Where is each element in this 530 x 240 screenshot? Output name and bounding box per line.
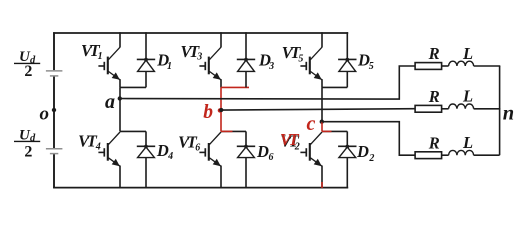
label D6 xyxy=(256,142,274,163)
inductor L (phase b branch) xyxy=(449,104,474,109)
label Ud/2 upper xyxy=(14,49,40,80)
wire: DC bus negative rail xyxy=(53,187,348,189)
wire: phase c output line xyxy=(322,122,415,156)
diode D3 xyxy=(237,32,255,87)
wire: leg A lower phase drop xyxy=(119,99,121,132)
wire: VT1 collector riser xyxy=(119,32,121,47)
wire xyxy=(474,65,501,67)
svg-text:2: 2 xyxy=(24,63,32,80)
label VT4 xyxy=(78,131,101,152)
wire: VT1 emitter lead xyxy=(119,79,121,87)
label D3 xyxy=(258,50,274,71)
wire: VT6 emitter to negative rail xyxy=(220,166,222,189)
svg-text:2: 2 xyxy=(294,142,300,153)
resistor R (phase a branch) xyxy=(415,63,442,70)
wire: VT4 collector to D4 jog xyxy=(120,130,146,132)
diode D2 xyxy=(338,131,356,188)
transistor VT2 (IGBT) xyxy=(300,132,322,166)
label D4 xyxy=(156,141,173,162)
wire: VT3 emitter lead xyxy=(220,79,222,87)
label VT1 xyxy=(81,41,103,62)
wire: leg B upper phase drop (red highlighted) xyxy=(220,87,222,110)
node o xyxy=(52,108,56,112)
node a xyxy=(118,96,122,100)
svg-text:D: D xyxy=(356,142,369,161)
label VT3 xyxy=(181,42,203,63)
svg-text:5: 5 xyxy=(369,61,374,72)
wire xyxy=(442,65,449,67)
wire: red highlight on VT2 jog xyxy=(322,130,332,132)
wire: phase b output line xyxy=(221,109,416,110)
svg-text:R: R xyxy=(428,133,440,152)
svg-text:a: a xyxy=(105,91,115,113)
svg-text:L: L xyxy=(462,87,473,106)
svg-text:4: 4 xyxy=(167,151,173,162)
transistor VT1 (IGBT) xyxy=(98,47,120,80)
wire xyxy=(474,108,501,110)
label Ud/2 lower xyxy=(14,127,40,160)
svg-text:d: d xyxy=(30,133,36,144)
label VT6 xyxy=(178,133,200,154)
wire: VT1 emitter to D1 jog xyxy=(120,86,146,88)
wire: phase a output line xyxy=(120,66,415,99)
svg-text:o: o xyxy=(40,103,50,124)
diode D6 xyxy=(237,131,255,188)
svg-text:6: 6 xyxy=(195,143,200,154)
svg-text:D: D xyxy=(156,141,169,160)
wire: leg C upper phase drop xyxy=(321,87,323,121)
transistor VT6 (IGBT) xyxy=(199,132,221,166)
wire: red highlight at VT2 emitter bottom xyxy=(321,182,323,188)
svg-text:5: 5 xyxy=(298,53,303,64)
wire: VT3 collector riser xyxy=(220,32,222,47)
inductor L (phase a branch) xyxy=(449,61,474,66)
svg-text:1: 1 xyxy=(98,51,103,62)
wire xyxy=(442,108,449,110)
svg-text:2: 2 xyxy=(24,144,32,161)
wire: load neutral bus n xyxy=(499,66,501,155)
node c xyxy=(320,120,324,124)
wire: leg B lower phase drop (red highlighted) xyxy=(220,110,222,131)
wire: left DC-link lower segment xyxy=(53,154,55,188)
wire: red highlight on VT6 jog xyxy=(221,130,233,132)
wire: VT6 collector to D6 jog xyxy=(221,130,246,132)
inductor L (phase c branch) xyxy=(449,150,474,155)
node b xyxy=(218,108,224,113)
svg-text:c: c xyxy=(307,113,316,135)
resistor R (phase c branch) xyxy=(415,152,442,159)
svg-text:L: L xyxy=(462,133,473,152)
svg-text:n: n xyxy=(503,102,514,124)
diode D5 xyxy=(338,32,356,87)
wire: leg C lower phase drop (red highlighted) xyxy=(321,122,323,132)
svg-text:R: R xyxy=(428,44,440,63)
svg-text:b: b xyxy=(203,102,213,123)
wire: leg A upper phase drop xyxy=(119,87,121,98)
capacitor lower Ud/2 cell xyxy=(46,149,63,154)
svg-text:6: 6 xyxy=(269,152,274,163)
label D1 xyxy=(156,50,172,71)
wire: VT5 collector riser xyxy=(321,32,323,47)
label VT5 xyxy=(282,43,304,65)
svg-text:L: L xyxy=(462,44,473,63)
wire xyxy=(474,154,500,156)
transistor VT5 (IGBT) xyxy=(300,47,322,80)
label D2 xyxy=(356,142,374,164)
wire: VT5 emitter to D5 jog xyxy=(322,86,347,88)
resistor R (phase b branch) xyxy=(415,105,442,112)
svg-text:2: 2 xyxy=(368,153,374,164)
svg-text:1: 1 xyxy=(167,61,172,72)
transistor VT3 (IGBT) xyxy=(199,47,221,80)
wire: left DC-link middle segment xyxy=(53,77,55,149)
label D5 xyxy=(357,50,374,72)
svg-text:R: R xyxy=(428,87,440,106)
wire: VT3 emitter to D3 jog (red highlighted) xyxy=(221,86,249,88)
wire: VT5 emitter lead xyxy=(321,79,323,87)
wire: VT2 collector to D2 jog xyxy=(322,130,347,132)
label VT2 (red over black) xyxy=(280,130,300,153)
svg-text:D: D xyxy=(256,142,269,161)
wire xyxy=(442,154,449,156)
wire: VT2 emitter to negative rail xyxy=(321,166,323,189)
wire: left DC-link upper segment xyxy=(53,32,55,70)
svg-text:3: 3 xyxy=(268,61,274,72)
wire: VT4 emitter to negative rail xyxy=(119,166,121,189)
svg-text:3: 3 xyxy=(196,52,202,63)
transistor VT4 (IGBT) xyxy=(98,132,120,166)
capacitor upper Ud/2 cell xyxy=(46,71,63,76)
diode D1 xyxy=(137,32,155,87)
svg-text:4: 4 xyxy=(95,142,101,153)
diode D4 xyxy=(137,131,155,188)
wire: DC bus positive rail xyxy=(53,32,348,34)
